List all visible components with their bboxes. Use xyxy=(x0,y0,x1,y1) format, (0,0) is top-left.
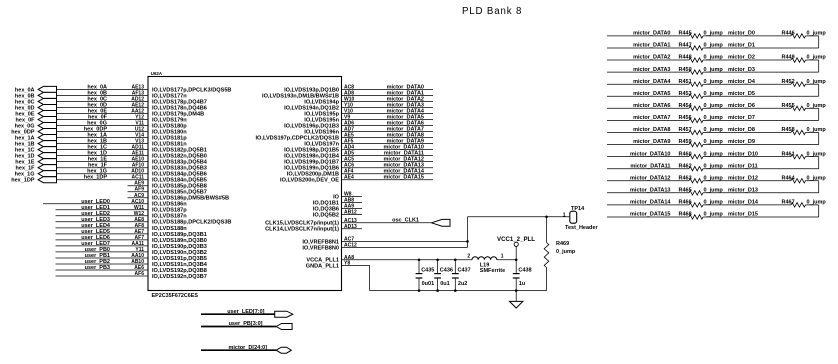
wire net mictor_DATA5 right section xyxy=(607,91,689,97)
svg-text:mictor_DATA15: mictor_DATA15 xyxy=(630,212,670,218)
svg-text:AF6: AF6 xyxy=(135,271,145,277)
pin AD6 xyxy=(344,121,354,127)
svg-text:mictor_D8: mictor_D8 xyxy=(728,127,755,133)
pin name IO,LVDS182p,DQ5B1 xyxy=(152,148,207,154)
pin name IO,LVDS181n xyxy=(152,142,187,148)
pin name IO,LVDS191p,DQ3B5 xyxy=(152,256,207,262)
port hex_0DP xyxy=(11,129,56,136)
pin name IO,LVDS179p,DM4B xyxy=(152,111,204,117)
pin V10 xyxy=(344,109,353,115)
port hex_0A xyxy=(15,86,57,93)
svg-text:1: 1 xyxy=(501,254,504,260)
wire net mictor_D12 xyxy=(703,175,791,181)
wire mictor row 2 to row 3 xyxy=(806,60,819,72)
wire net mictor_D6 xyxy=(703,103,791,109)
resistor R466 xyxy=(679,200,724,207)
pin name IO,LVDS195n xyxy=(304,117,339,123)
pin name IO,LVDS183p,DQ5B4 xyxy=(152,160,208,166)
svg-text:IO,LVDS199p,DQ1B7: IO,LVDS199p,DQ1B7 xyxy=(284,160,339,166)
wire net mictor_DATA10 xyxy=(342,145,434,151)
wire net mictor_D0 xyxy=(703,31,791,37)
pin name IO,LVDS193n,DM1B/BWS#1B xyxy=(262,93,339,99)
svg-text:R464: R464 xyxy=(782,175,796,181)
svg-text:mictor_D7: mictor_D7 xyxy=(728,115,755,121)
svg-text:mictor_D11: mictor_D11 xyxy=(728,163,758,169)
svg-text:IO,LVDS188p,DPCLK2/DQS3B: IO,LVDS188p,DPCLK2/DQS3B xyxy=(152,220,231,226)
svg-text:hex_0DP: hex_0DP xyxy=(11,129,35,135)
svg-text:IO,LVDS200n,DEV_OE: IO,LVDS200n,DEV_OE xyxy=(280,178,339,184)
pin AE8 xyxy=(134,217,144,223)
node C436 bottom xyxy=(436,289,439,292)
wire net user_LED0 xyxy=(43,199,148,205)
wire net hex_0B xyxy=(57,90,149,96)
resistor R445 xyxy=(679,31,724,39)
svg-text:mictor_D13: mictor_D13 xyxy=(728,188,758,194)
wire mictor row 4 to row 5 xyxy=(806,84,819,96)
pin name IO,LVDS177p,DPCLK3/DQS5B xyxy=(152,87,231,93)
wire net hex_1DP xyxy=(57,175,149,181)
pin AF6 xyxy=(135,271,145,277)
resistor R459 xyxy=(679,139,724,147)
pin name IO,LVDS187p xyxy=(152,208,187,214)
wire net mictor_DATA5 xyxy=(342,115,434,121)
wire net mictor_DATA9 right section xyxy=(607,139,689,145)
pin AA12 xyxy=(131,109,144,115)
wire net hex_0F xyxy=(57,115,149,121)
svg-text:mictor_DATA0: mictor_DATA0 xyxy=(633,31,670,37)
wire net user_LED2 xyxy=(56,211,149,217)
pin AA10 xyxy=(131,253,144,259)
wire net hex_1G xyxy=(57,169,149,175)
node C437 top xyxy=(454,259,457,262)
wire net mictor_DATA6 right section xyxy=(607,103,689,109)
pin name IO,VREFB8N0 xyxy=(302,245,339,251)
port osc_CLK1 xyxy=(432,219,451,226)
resistor R447 xyxy=(679,43,724,50)
svg-text:R449: R449 xyxy=(782,55,795,61)
pin name IO,LVDS195p xyxy=(304,111,339,117)
pin AC10 xyxy=(131,199,144,205)
svg-text:hex_1E: hex_1E xyxy=(15,160,35,166)
pin AE12 xyxy=(131,103,144,109)
wire net mictor_DATA0 right section xyxy=(607,31,689,37)
svg-text:W10: W10 xyxy=(344,96,355,102)
wire net mictor_D15 xyxy=(703,212,819,218)
resistor R452 xyxy=(782,79,827,86)
pin AD10 xyxy=(131,169,144,175)
port hex_1G xyxy=(15,171,57,178)
pin name IO,LVDS180p xyxy=(152,123,187,129)
capacitor C438 xyxy=(513,260,532,291)
wire net hex_1F xyxy=(57,163,149,169)
port hex_0F xyxy=(16,117,57,124)
pin U12 xyxy=(135,127,144,133)
capacitor C435 xyxy=(416,260,435,291)
wire net user_PB0 xyxy=(56,247,149,253)
pin name IO,LVDS186p,DM5B/BWS#5B xyxy=(152,196,229,202)
svg-text:IO,LVDS194p: IO,LVDS194p xyxy=(304,99,339,105)
pin name VCCA_PLL1 xyxy=(306,258,339,264)
wire net mictor_DATA12 right section xyxy=(607,175,689,181)
svg-text:hex_0C: hex_0C xyxy=(87,96,107,102)
svg-text:TP14: TP14 xyxy=(571,206,585,212)
svg-text:mictor_D9: mictor_D9 xyxy=(728,139,755,145)
wire net hex_0G xyxy=(57,121,149,127)
bus port user_PB[3:0] xyxy=(201,321,292,329)
pin name IO,LVDS197n xyxy=(304,142,339,148)
wire net mictor_DATA11 xyxy=(342,151,434,157)
node L19 output junction xyxy=(515,259,518,262)
svg-text:mictor_D0: mictor_D0 xyxy=(728,31,755,37)
pin stub AB8 xyxy=(342,198,363,204)
pin name IO,LVDS197p,CDPCLK2/DQS1B xyxy=(255,136,339,142)
svg-text:mictor_DATA7: mictor_DATA7 xyxy=(633,115,670,121)
pin AE7 xyxy=(134,229,144,235)
pin stub W8 xyxy=(342,192,363,198)
svg-text:AD7: AD7 xyxy=(344,127,354,133)
wire mictor row 6 to row 7 xyxy=(806,108,819,120)
wire net mictor_DATA11 right section xyxy=(607,163,689,169)
svg-text:2u2: 2u2 xyxy=(458,281,467,287)
pin name CLK14 xyxy=(265,227,339,233)
wire net user_LED7 xyxy=(56,241,149,247)
pin name IO,LVDS198p,DQ1B5 xyxy=(284,148,339,154)
pin name IO,LVDS200n,DEV_OE xyxy=(280,178,339,184)
wire net hex_1B xyxy=(57,139,149,145)
capacitor C437 xyxy=(452,260,471,291)
svg-text:R466: R466 xyxy=(679,200,692,206)
wire net hex_1E xyxy=(57,157,149,163)
pin name IO,DQ5B2 xyxy=(313,212,339,218)
svg-text:mictor_D3: mictor_D3 xyxy=(728,67,755,73)
wire net mictor_DATA3 right section xyxy=(607,67,689,73)
resistor R450 xyxy=(679,67,724,75)
svg-text:IO,LVDS180n: IO,LVDS180n xyxy=(152,129,187,135)
resistor R448 xyxy=(679,55,724,63)
testpoint TP14 xyxy=(563,206,599,231)
pin name IO,LVDS182n,DQ5B0 xyxy=(152,154,207,160)
wire mictor row 0 to row 1 xyxy=(806,36,819,48)
svg-text:AE4: AE4 xyxy=(344,175,354,181)
svg-text:R452: R452 xyxy=(782,79,795,85)
wire net mictor_DATA1 xyxy=(342,90,434,96)
pin name IO,LVDS189p,DQ3B1 xyxy=(152,232,207,238)
svg-text:mictor_DATA11: mictor_DATA11 xyxy=(630,163,670,169)
node C438 bottom xyxy=(515,289,518,292)
pin name IO xyxy=(333,194,340,200)
node vref junction xyxy=(466,240,469,243)
pin name IO,LVDS199n,DQ1B6 xyxy=(284,166,339,172)
pin AE13 xyxy=(131,84,144,90)
pin name IO,LVDS187n xyxy=(152,214,187,220)
svg-text:R447: R447 xyxy=(679,43,692,49)
svg-text:mictor_DATA12: mictor_DATA12 xyxy=(630,175,670,181)
pin AC5 xyxy=(344,157,354,163)
wire net mictor_D13 xyxy=(703,188,819,194)
pin stub AB12 xyxy=(342,210,363,216)
svg-text:U62A: U62A xyxy=(151,71,163,76)
resistor R467 xyxy=(782,200,827,207)
pin name IO,LVDS181p xyxy=(152,136,187,142)
wire net mictor_DATA9 xyxy=(342,139,434,145)
pin W11 xyxy=(134,205,144,211)
svg-text:mictor_D15: mictor_D15 xyxy=(728,212,758,218)
wire net mictor_DATA0 xyxy=(342,84,434,90)
pin name IO,LVDS188n xyxy=(152,226,187,232)
wire net hex_1C xyxy=(57,145,149,151)
svg-text:mictor_D14: mictor_D14 xyxy=(728,200,759,206)
wire net user_LED1 xyxy=(56,205,149,211)
resistor R463 xyxy=(679,175,724,183)
svg-text:CLK14,LVDSCLK7n/input(1): CLK14,LVDSCLK7n/input(1) xyxy=(265,227,339,233)
bus port user_LED[7:0] xyxy=(201,309,293,317)
ground xyxy=(510,291,523,308)
svg-text:IO,LVDS190n,DQ3B2: IO,LVDS190n,DQ3B2 xyxy=(152,250,207,256)
svg-text:mictor_D[24:0]: mictor_D[24:0] xyxy=(228,345,267,351)
wire net mictor_D14 xyxy=(703,200,791,206)
svg-text:IO,LVDS192n,DQ3B7: IO,LVDS192n,DQ3B7 xyxy=(152,274,207,280)
svg-text:mictor_D10: mictor_D10 xyxy=(728,151,758,157)
svg-text:C435: C435 xyxy=(421,268,434,274)
pin name IO,LVDS185n,DQ5B7 xyxy=(152,190,207,196)
wire net user_PB1 xyxy=(56,253,149,259)
svg-text:mictor_DATA6: mictor_DATA6 xyxy=(633,103,670,109)
pin AC7 xyxy=(344,236,354,242)
pin AB10 xyxy=(131,259,144,265)
pin AF8 xyxy=(135,223,145,229)
pin AD8 xyxy=(344,90,354,96)
pin Y10 xyxy=(344,103,353,109)
resistor R457 xyxy=(679,127,724,134)
pin V9 xyxy=(344,115,350,121)
resistor R458 xyxy=(782,127,827,134)
pin name IO,DQ3B6 xyxy=(313,206,339,212)
svg-text:R448: R448 xyxy=(679,55,692,61)
wire net hex_0C xyxy=(57,96,149,102)
wire AC12 to testpoint net xyxy=(342,246,468,248)
svg-text:hex_1E: hex_1E xyxy=(88,157,108,163)
bus port mictor_D[24:0] xyxy=(201,345,291,353)
pin AA11 xyxy=(131,241,144,247)
svg-text:hex_0C: hex_0C xyxy=(15,99,35,105)
pin AA8 xyxy=(344,255,354,261)
capacitor C436 xyxy=(434,260,453,291)
pin AD11 xyxy=(131,145,144,151)
svg-text:1: 1 xyxy=(563,212,566,218)
svg-text:mictor_D12: mictor_D12 xyxy=(728,175,758,181)
wire net mictor_D11 xyxy=(703,163,819,169)
wire net mictor_D8 xyxy=(703,127,791,133)
pin name IO,LVDS177n xyxy=(152,93,187,99)
pin V11 xyxy=(135,121,144,127)
node C435 bottom xyxy=(418,289,421,292)
svg-text:R446: R446 xyxy=(782,31,795,37)
svg-text:IO,LVDS185n,DQ5B7: IO,LVDS185n,DQ5B7 xyxy=(152,190,207,196)
resistor R460 xyxy=(679,151,724,159)
wire net mictor_DATA12 xyxy=(342,157,434,163)
svg-text:IO,DQ5B2: IO,DQ5B2 xyxy=(313,212,339,218)
svg-text:R462: R462 xyxy=(679,163,692,169)
svg-text:AD13: AD13 xyxy=(344,224,357,230)
resistor R451 xyxy=(679,79,724,86)
pin AD5 xyxy=(344,151,354,157)
svg-text:R461: R461 xyxy=(782,151,795,157)
svg-text:osc_CLK1: osc_CLK1 xyxy=(392,218,419,224)
svg-text:C437: C437 xyxy=(458,268,471,274)
svg-text:R457: R457 xyxy=(679,127,692,133)
port hex_0C xyxy=(15,98,57,105)
wire VCCA_PLL1 net xyxy=(342,259,473,261)
resistor R456 xyxy=(679,115,724,122)
svg-text:mictor_DATA5: mictor_DATA5 xyxy=(633,91,670,97)
svg-text:IO,LVDS196n: IO,LVDS196n xyxy=(304,129,339,135)
svg-text:R454: R454 xyxy=(679,103,693,109)
wire net user_LED4 xyxy=(56,223,149,229)
wire net hex_1A xyxy=(57,133,149,139)
svg-text:mictor_D2: mictor_D2 xyxy=(728,55,755,61)
pin AE5 xyxy=(344,133,354,139)
svg-text:hex_1DP: hex_1DP xyxy=(84,175,108,181)
pin AE4 xyxy=(344,175,354,181)
wire net mictor_DATA10 right section xyxy=(607,151,689,157)
svg-text:VCC1_2_PLL: VCC1_2_PLL xyxy=(497,236,535,243)
pin name IO,LVDS190n,DQ3B2 xyxy=(152,250,207,256)
svg-text:mictor_D1: mictor_D1 xyxy=(728,43,755,49)
pin AD4 xyxy=(344,145,354,151)
wire net user_LED5 xyxy=(56,229,149,235)
pin name IO,LVDS189n,DQ3B0 xyxy=(152,238,207,244)
pin AF13 xyxy=(132,90,144,96)
pin name IO,LVDS186n xyxy=(152,202,187,208)
pin name IO,LVDS193p,DQ1B0 xyxy=(284,87,339,93)
wire vref junction vertical xyxy=(467,217,469,248)
pin AC6 xyxy=(344,163,354,169)
port hex_1A xyxy=(15,135,57,142)
svg-text:user_PB0: user_PB0 xyxy=(85,247,110,253)
node C437 bottom xyxy=(454,289,457,292)
port hex_0B xyxy=(15,92,57,99)
svg-text:AB12: AB12 xyxy=(344,210,357,216)
resistor R449 xyxy=(782,55,827,63)
pin name IO,LVDS192n,DQ3B7 xyxy=(152,274,207,280)
pin name IO,LVDS192p,DQ3B8 xyxy=(152,268,207,274)
wire net mictor_DATA13 right section xyxy=(607,188,689,194)
wire net mictor_DATA4 xyxy=(342,109,434,115)
svg-text:mictor_DATA13: mictor_DATA13 xyxy=(630,188,670,194)
wire testpoint top xyxy=(468,216,570,218)
svg-text:IO,LVDS178p,DQ4B7: IO,LVDS178p,DQ4B7 xyxy=(152,99,207,105)
svg-text:R456: R456 xyxy=(679,115,692,121)
svg-text:mictor_DATA3: mictor_DATA3 xyxy=(633,67,670,73)
wire net mictor_D5 xyxy=(703,91,819,97)
wire net mictor_DATA8 xyxy=(342,133,434,139)
svg-text:IO,LVDS183p,DQ5B4: IO,LVDS183p,DQ5B4 xyxy=(152,160,208,166)
svg-text:1u: 1u xyxy=(519,281,525,287)
wire net mictor_D9 xyxy=(703,139,819,145)
pin AD7 xyxy=(344,127,354,133)
resistor R455 xyxy=(782,103,827,111)
inductor L19 xyxy=(467,254,516,274)
svg-text:0_jump: 0_jump xyxy=(556,249,576,255)
pin AF10 xyxy=(132,163,144,169)
resistor R468 xyxy=(679,212,724,219)
svg-text:user_LED[7:0]: user_LED[7:0] xyxy=(227,309,264,315)
svg-text:user_PB3: user_PB3 xyxy=(85,265,110,271)
port hex_0D xyxy=(15,104,57,111)
svg-text:mictor_D6: mictor_D6 xyxy=(728,103,755,109)
resistor R454 xyxy=(679,103,724,111)
pin name IO,LVDS199p,DQ1B7 xyxy=(284,160,339,166)
svg-text:Test_Header: Test_Header xyxy=(565,225,598,231)
pin name IO,LVDS184p,DQ5B6 xyxy=(152,172,207,178)
IC U62A FPGA EP2C35F672C6ES body xyxy=(148,71,342,299)
port hex_0E xyxy=(15,110,56,117)
svg-text:EP2C35F672C6ES: EP2C35F672C6ES xyxy=(152,293,199,299)
wire net hex_1D xyxy=(57,151,149,157)
svg-text:Y11: Y11 xyxy=(135,247,144,253)
pin name IO,LVDS191n,DQ3B4 xyxy=(152,262,208,268)
pin Y11 xyxy=(135,247,144,253)
svg-text:R459: R459 xyxy=(679,139,692,145)
wire net user_PB2 xyxy=(56,259,149,265)
svg-text:mictor_DATA9: mictor_DATA9 xyxy=(633,139,670,145)
svg-text:mictor_DATA2: mictor_DATA2 xyxy=(387,96,424,102)
wire net hex_0A xyxy=(57,84,149,90)
pin name IO,LVDS196n xyxy=(304,129,339,135)
svg-text:AF9: AF9 xyxy=(135,187,145,193)
title xyxy=(462,6,522,17)
svg-text:R460: R460 xyxy=(679,151,692,157)
wire net mictor_DATA3 xyxy=(342,103,434,109)
wire net mictor_DATA13 xyxy=(342,163,434,169)
svg-text:SMFerrite: SMFerrite xyxy=(480,268,505,274)
wire net mictor_DATA14 xyxy=(342,169,434,175)
svg-text:mictor_DATA12: mictor_DATA12 xyxy=(384,157,424,163)
port hex_1B xyxy=(15,141,57,148)
svg-text:C438: C438 xyxy=(518,268,531,274)
port hex_1DP xyxy=(11,177,56,184)
pin AF4 xyxy=(344,169,354,175)
svg-text:mictor_DATA1: mictor_DATA1 xyxy=(633,43,670,49)
pin name IO,LVDS183n,DQ5B3 xyxy=(152,166,207,172)
svg-text:mictor_DATA10: mictor_DATA10 xyxy=(630,151,670,157)
pin AC12 xyxy=(344,242,357,248)
svg-text:0u01: 0u01 xyxy=(422,281,435,287)
svg-text:hex_1DP: hex_1DP xyxy=(11,178,35,184)
pin V13 xyxy=(135,139,144,145)
pin AD12 xyxy=(131,96,144,102)
wire net hex_0D xyxy=(57,103,149,109)
wire net osc_CLK1 xyxy=(342,218,432,224)
pin AE10 xyxy=(131,157,144,163)
wire AC7 to testpoint net xyxy=(342,240,468,242)
svg-text:mictor_DATA2: mictor_DATA2 xyxy=(633,55,670,61)
wire net mictor_DATA8 right section xyxy=(607,127,689,133)
pin name IO,LVDS196p,DQ1B3 xyxy=(284,123,339,129)
pin AC8 xyxy=(344,84,354,90)
pin Y8 xyxy=(344,260,350,266)
svg-text:R445: R445 xyxy=(679,31,692,37)
svg-text:mictor_DATA4: mictor_DATA4 xyxy=(633,79,671,85)
svg-text:mictor_DATA14: mictor_DATA14 xyxy=(630,200,671,206)
svg-text:mictor_DATA8: mictor_DATA8 xyxy=(633,127,670,133)
pin AC11 xyxy=(131,175,144,181)
resistor R453 xyxy=(679,91,724,98)
svg-text:2: 2 xyxy=(467,254,470,260)
wire mictor row 12 to row 13 xyxy=(806,181,819,193)
svg-text:PLD Bank 8: PLD Bank 8 xyxy=(462,6,522,17)
pin stub AE9 xyxy=(128,181,149,187)
